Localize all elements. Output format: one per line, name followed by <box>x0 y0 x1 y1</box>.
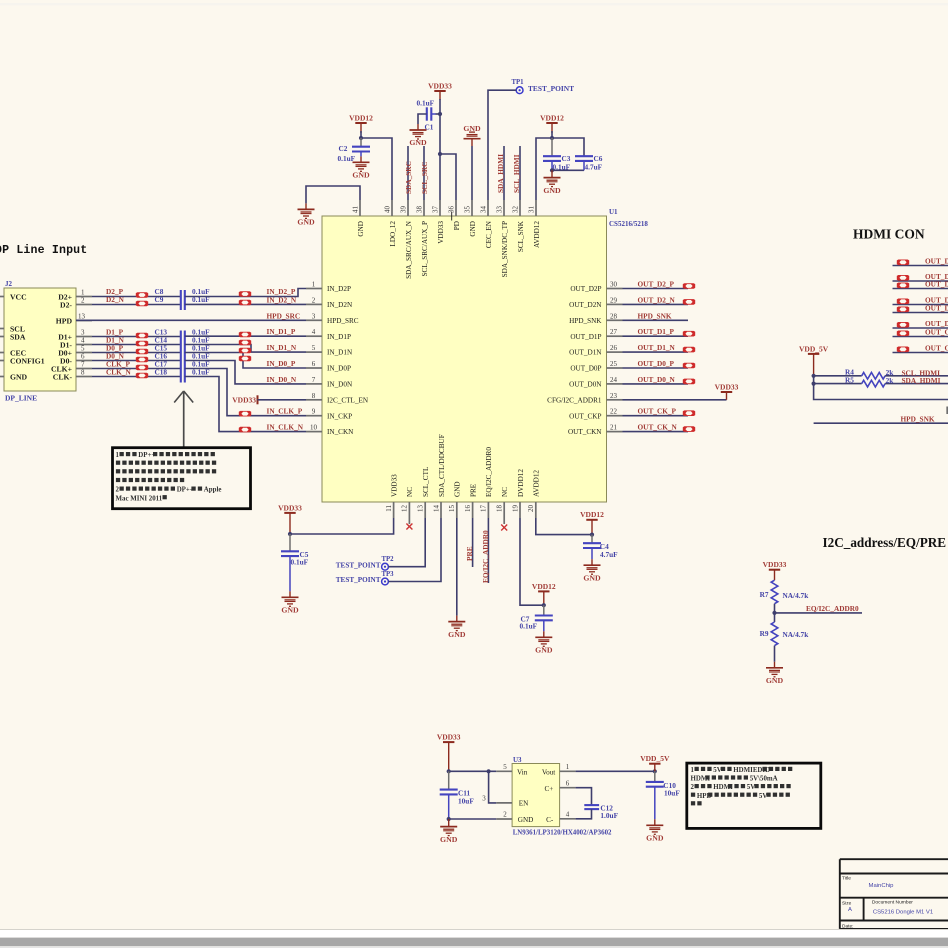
svg-text:4.7uF: 4.7uF <box>600 550 618 559</box>
diff-pair directive <box>683 347 695 353</box>
diff-pair directive <box>897 275 909 281</box>
svg-text:HPD_SNK: HPD_SNK <box>569 317 602 325</box>
no-connect X pin 18 <box>501 525 507 531</box>
diff-pair directive <box>683 283 695 289</box>
wire PRE U1.16 <box>472 518 474 567</box>
svg-text:20: 20 <box>527 505 535 513</box>
svg-text:VDD12: VDD12 <box>349 113 373 122</box>
U1 pin 30 OUT_D2P stub <box>607 288 623 290</box>
power VDD33 at R7 <box>769 570 780 581</box>
svg-text:DP Line Input: DP Line Input <box>0 244 87 257</box>
U1 pin 18 NC stub <box>503 502 505 524</box>
svg-text:CLK-: CLK- <box>53 373 73 382</box>
svg-text:GND: GND <box>409 138 427 147</box>
svg-text:GND: GND <box>469 221 477 237</box>
wire VDD33 branch to U1.36 PD <box>440 154 456 200</box>
J2 pin 7 CLK+ <box>76 368 92 370</box>
svg-text:EQ/I2C_ADDR0: EQ/I2C_ADDR0 <box>481 530 490 583</box>
wire U1.41 GND to ground <box>306 186 360 203</box>
svg-text:C18: C18 <box>155 368 168 377</box>
capacitor C12 1.0uF <box>576 788 592 805</box>
U1 pin 13 SCL_CTL stub <box>424 502 426 518</box>
U1 pin 25 OUT_D0P stub <box>607 367 623 369</box>
svg-text:GND: GND <box>766 676 784 685</box>
svg-text:IN_D0P: IN_D0P <box>327 365 351 373</box>
U1 pin 33 SDA_SNK/DC_TP stub <box>503 200 505 216</box>
U1 pin 15 GND stub <box>456 502 458 518</box>
svg-text:SCL_SRC: SCL_SRC <box>420 162 429 194</box>
svg-text:VCC: VCC <box>10 293 27 302</box>
diff-pair directive <box>239 427 251 433</box>
svg-text:VDD33: VDD33 <box>232 396 256 405</box>
svg-text:IN_D2_N: IN_D2_N <box>267 295 297 304</box>
ground symbol (U1.35) <box>464 132 481 139</box>
U1 pin 11 VDD33 stub <box>393 502 395 518</box>
svg-text:LDO_12: LDO_12 <box>389 221 397 247</box>
wire U1.20 AVDD12 <box>536 518 592 535</box>
wire U1.15 GND <box>456 518 458 616</box>
svg-text:33: 33 <box>495 206 503 214</box>
svg-text:SDA_SNK/DC_TP: SDA_SNK/DC_TP <box>501 221 509 277</box>
power VDD_5V at U3 output <box>649 764 660 772</box>
svg-text:IN_D1_N: IN_D1_N <box>267 343 297 352</box>
svg-text:GND: GND <box>10 373 28 382</box>
svg-text:5V: 5V <box>759 793 767 800</box>
svg-text:7: 7 <box>312 376 316 384</box>
diff-pair directive <box>239 332 251 338</box>
svg-text:CS5216/5218: CS5216/5218 <box>609 220 648 228</box>
ground symbol (C4) <box>584 565 601 574</box>
svg-text:SCL_SRC/AUX_P: SCL_SRC/AUX_P <box>421 221 429 277</box>
svg-text:OUT_D1_P: OUT_D1_P <box>638 327 675 336</box>
U1 pin 19 DVDD12 stub <box>519 502 521 518</box>
svg-text:1: 1 <box>81 289 85 297</box>
note box 2 (5V for HDMI EDID note) <box>687 763 821 828</box>
svg-text:GND: GND <box>518 816 534 824</box>
diff-pair directive <box>683 426 695 432</box>
svg-text:GND: GND <box>535 646 553 655</box>
J2 left pin GND <box>0 376 4 378</box>
svg-text:MainChip: MainChip <box>869 883 895 889</box>
test point TP2 <box>382 563 389 570</box>
svg-text:OUT_CK_N: OUT_CK_N <box>925 344 948 353</box>
svg-text:38: 38 <box>415 206 423 214</box>
svg-text:OUT_D0P: OUT_D0P <box>570 365 601 373</box>
svg-text:4: 4 <box>81 337 85 345</box>
svg-text:GND: GND <box>357 221 365 237</box>
wire GND rail U3.2 <box>449 818 497 820</box>
svg-text:OUT_D2_P: OUT_D2_P <box>638 280 675 289</box>
svg-text:TEST_POINT: TEST_POINT <box>336 576 381 584</box>
svg-text:OUT_D0_P: OUT_D0_P <box>638 359 675 368</box>
svg-text:VDD12: VDD12 <box>540 113 564 122</box>
U1 pin 32 SCL_SNK stub <box>519 200 521 216</box>
svg-text:IN_D0_P: IN_D0_P <box>267 359 296 368</box>
svg-text:A: A <box>848 907 852 913</box>
svg-text:5: 5 <box>503 763 507 771</box>
resistor R4 2k SCL_HDMI pullup <box>814 375 862 377</box>
HDMI connector edge (clipped) <box>946 407 948 415</box>
capacitor C6 4.7uF <box>575 155 593 157</box>
ground symbol (U1.15) <box>448 622 465 631</box>
wire TP2 to U1.13 SCL_CTL <box>389 518 426 567</box>
svg-text:Date:: Date: <box>842 923 853 929</box>
IC U3 LN9361 body <box>512 764 560 827</box>
svg-text:IN_CKN: IN_CKN <box>327 428 354 436</box>
power VDD12 at C2/LDO_12 <box>355 123 366 133</box>
svg-text:2: 2 <box>691 784 695 791</box>
svg-text:2: 2 <box>81 297 85 305</box>
svg-text:PRE: PRE <box>465 546 474 561</box>
U1 pin 27 OUT_D1P stub <box>607 335 623 337</box>
svg-text:15: 15 <box>448 505 456 513</box>
svg-text:IN_CLK_P: IN_CLK_P <box>267 407 303 416</box>
U1 pin 14 SDA_CTL/DDCBUF stub <box>440 502 442 518</box>
power VDD33 at U3/C11 <box>443 742 454 771</box>
U1 pin 23 CFG/I2C_ADDR1 stub <box>607 399 623 401</box>
svg-text:6: 6 <box>81 353 85 361</box>
svg-text:NA/4.7k: NA/4.7k <box>783 630 810 639</box>
svg-text:HPD_SNK: HPD_SNK <box>638 311 672 320</box>
wire D0_N J2.6 to C16 <box>92 360 181 362</box>
svg-text:VDD33: VDD33 <box>715 382 739 391</box>
svg-text:7: 7 <box>81 361 85 369</box>
wire OUT_D2_P to HDMI connector <box>893 265 948 267</box>
wire EN U3.3 <box>489 771 497 803</box>
svg-text:OUT_CK_P: OUT_CK_P <box>925 328 948 337</box>
diff-pair directive <box>683 363 695 369</box>
wire IN_D0_P C15 to U1.6 <box>185 353 306 369</box>
no-connect X pin 12 <box>406 524 412 530</box>
svg-text:I2C_address/EQ/PRE: I2C_address/EQ/PRE <box>823 535 947 550</box>
svg-text:TP1: TP1 <box>512 79 525 86</box>
svg-text:VDD33: VDD33 <box>278 503 302 512</box>
capacitor C1 0.1uF <box>426 107 428 120</box>
wire VDD12 to U1.31 AVDD12 <box>536 138 552 200</box>
U1 pin 4 IN_D1P stub <box>306 335 322 337</box>
U1 pin 34 CEC_EN stub <box>487 200 489 216</box>
wire D2_N J2.2 to C9 <box>92 304 181 306</box>
svg-text:12: 12 <box>401 505 409 513</box>
svg-text:27: 27 <box>610 328 618 336</box>
svg-text:SDA_SRC/AUX_N: SDA_SRC/AUX_N <box>405 220 413 279</box>
svg-text:35: 35 <box>463 206 471 214</box>
svg-text:R7: R7 <box>760 590 769 599</box>
svg-text:PRE: PRE <box>469 483 477 497</box>
U1 pin 10 IN_CKN stub <box>306 431 322 433</box>
U1 pin 38 SCL_SRC/AUX_P stub <box>423 200 425 216</box>
U1 pin 37 VDD33 stub <box>439 200 441 216</box>
svg-text:OUT_D1P: OUT_D1P <box>570 333 601 341</box>
svg-text:TEST_POINT: TEST_POINT <box>336 561 381 569</box>
svg-text:32: 32 <box>511 206 519 214</box>
connector J2 DP_LINE <box>4 288 76 391</box>
svg-text:C-: C- <box>546 816 554 824</box>
svg-text:EN: EN <box>519 800 529 808</box>
power VDD12 at C4/U1.20 <box>586 520 597 535</box>
diff-pair directive <box>897 283 909 289</box>
svg-text:DP++: DP++ <box>177 487 194 494</box>
diff-pair directive <box>897 331 909 337</box>
svg-text:D2_N: D2_N <box>106 295 125 304</box>
svg-text:EQ/I2C_ADDR0: EQ/I2C_ADDR0 <box>485 447 493 497</box>
svg-text:9: 9 <box>312 408 316 416</box>
svg-text:VDD33: VDD33 <box>437 733 461 742</box>
svg-text:8: 8 <box>312 392 316 400</box>
svg-text:TEST_POINT: TEST_POINT <box>528 84 574 93</box>
svg-text:31: 31 <box>527 206 535 214</box>
svg-text:OUT_D1N: OUT_D1N <box>569 349 602 357</box>
diff-pair directive <box>239 356 251 362</box>
diff-pair directive <box>897 307 909 313</box>
svg-text:39: 39 <box>399 206 407 214</box>
svg-text:OUT_CK_P: OUT_CK_P <box>638 407 677 416</box>
svg-text:NA/4.7k: NA/4.7k <box>783 591 810 600</box>
diff-pair directive <box>683 299 695 305</box>
ground symbol (C10) <box>646 825 663 834</box>
U1 pin 26 OUT_D1N stub <box>607 351 623 353</box>
wire IN_D0_N C16 to U1.7 <box>185 361 306 384</box>
svg-text:6: 6 <box>566 779 570 787</box>
svg-text:19: 19 <box>511 505 519 513</box>
svg-text:3: 3 <box>312 312 316 320</box>
J2 pin 4 D1- <box>76 344 92 346</box>
svg-text:11: 11 <box>385 505 393 512</box>
svg-text:OUT_CK_N: OUT_CK_N <box>638 423 678 432</box>
svg-text:CLK_N: CLK_N <box>106 368 131 377</box>
svg-text:TP3: TP3 <box>382 571 395 578</box>
svg-text:4: 4 <box>312 328 316 336</box>
svg-text:GND: GND <box>448 630 466 639</box>
svg-text:29: 29 <box>610 296 618 304</box>
power VDD33 at C5/U1.11 <box>284 513 295 534</box>
power VDD33 at U1.23 <box>721 392 732 400</box>
svg-text:OUT_D0N: OUT_D0N <box>569 381 602 389</box>
U1 pin 36 PD stub <box>455 200 457 216</box>
svg-text:IN_D2N: IN_D2N <box>327 301 353 309</box>
wire SDA_HDMI U1.33 <box>503 146 505 200</box>
svg-text:GND: GND <box>440 835 458 844</box>
U1 pin 16 PRE stub <box>472 502 474 518</box>
svg-text:IN_D0_N: IN_D0_N <box>267 375 297 384</box>
svg-text:HPD_SNK: HPD_SNK <box>901 414 935 423</box>
svg-text:U1: U1 <box>609 208 618 216</box>
wire SCL_SRC U1.38 <box>423 146 425 200</box>
svg-text:OUT_D0_N: OUT_D0_N <box>638 375 676 384</box>
capacitor C5 0.1uF <box>289 534 291 551</box>
svg-text:D2-: D2- <box>60 301 72 310</box>
svg-text:HPD: HPD <box>56 317 73 326</box>
U1 pin 3 HPD_SRC stub <box>306 319 322 321</box>
J2 pin 6 D0- <box>76 360 92 362</box>
svg-text:30: 30 <box>610 281 618 289</box>
wire CLK_P J2.7 to C17 <box>92 368 181 370</box>
svg-text:IN_CKP: IN_CKP <box>327 412 352 420</box>
U1 pin 7 IN_D0N stub <box>306 383 322 385</box>
wire OUT_CK_N to HDMI connector <box>893 352 948 354</box>
wire OUT_D2_N from U1 <box>623 303 689 305</box>
svg-text:SDA_HDMI: SDA_HDMI <box>496 154 505 193</box>
wire D1_P J2.3 to C13 <box>92 336 181 338</box>
wire VDD12 to C6 <box>552 138 584 156</box>
J2 left pin SCL <box>0 328 4 330</box>
wire IN_CLK_P C17 to U1.9 <box>185 369 306 416</box>
svg-text:6: 6 <box>312 360 316 368</box>
svg-text:DP++: DP++ <box>138 452 155 459</box>
wire HPD J2.13 to U1.3 (HPD_SRC) <box>76 319 306 321</box>
J2 pin 3 D1+ <box>76 336 92 338</box>
J2 left pin CONFIG1 <box>0 360 4 362</box>
svg-text:VDD33: VDD33 <box>390 474 398 497</box>
svg-text:25: 25 <box>610 360 618 368</box>
svg-text:I2C_CTL_EN: I2C_CTL_EN <box>327 396 369 404</box>
svg-text:AVDD12: AVDD12 <box>533 221 541 248</box>
svg-text:34: 34 <box>479 206 487 214</box>
svg-text:C9: C9 <box>155 295 164 304</box>
wire D0_P J2.5 to C15 <box>92 352 181 354</box>
svg-text:SCL_SNK: SCL_SNK <box>517 220 525 252</box>
power VDD_5V (HDMI) <box>808 354 819 376</box>
ground symbol (R9) <box>766 668 783 677</box>
wire SCL_HDMI U1.32 <box>519 146 521 200</box>
wire D2_P J2.1 to C8 <box>92 296 181 298</box>
wire OUT_D1_N from U1 <box>623 351 689 353</box>
resistor R7 NA/4.7k <box>771 580 778 604</box>
J2 left pin SDA <box>0 336 4 338</box>
svg-text:Title: Title <box>842 876 851 882</box>
U3 pin 2 GND stub <box>496 818 512 820</box>
U1 pin 40 LDO_12 stub <box>391 200 393 216</box>
svg-text:LN9361/LP3120/HX4002/AP3602: LN9361/LP3120/HX4002/AP3602 <box>513 830 612 837</box>
svg-text:OUT_D1_N: OUT_D1_N <box>638 343 676 352</box>
svg-text:OUT_D0_P: OUT_D0_P <box>925 304 948 313</box>
svg-text:GND: GND <box>646 834 664 843</box>
diff-pair directive <box>239 291 251 297</box>
svg-text:EQ/I2C_ADDR0: EQ/I2C_ADDR0 <box>806 604 859 613</box>
wire OUT_D1_N to HDMI connector <box>893 304 948 306</box>
svg-text:HDMI CON: HDMI CON <box>853 227 925 242</box>
svg-text:22: 22 <box>610 408 618 416</box>
capacitor C10 10uF <box>654 771 656 782</box>
test point TP3 <box>382 578 389 585</box>
svg-text:GND: GND <box>281 606 299 615</box>
svg-text:2: 2 <box>116 487 120 494</box>
J2 pin 1 D2+ <box>76 296 92 298</box>
J2 left pin VCC <box>0 296 4 298</box>
svg-text:VDD33: VDD33 <box>428 81 452 90</box>
svg-text:SDA_CTL/DDCBUF: SDA_CTL/DDCBUF <box>438 434 446 497</box>
wire TP1 to U1.34 CEC_EN <box>488 90 516 200</box>
wire VDD12 node to U1.40 <box>360 131 362 138</box>
svg-text:SDA_SRC: SDA_SRC <box>404 161 413 194</box>
U1 pin 12 NC stub <box>408 502 410 524</box>
svg-text:GND: GND <box>583 573 601 582</box>
ground symbol (C5) <box>282 597 299 606</box>
wire HPD_SNK from U1 <box>623 319 689 321</box>
note arrow <box>183 392 185 447</box>
wire SDA_SRC U1.39 <box>407 146 409 200</box>
svg-text:10uF: 10uF <box>664 788 680 797</box>
ground symbol (C7) <box>535 637 552 646</box>
wire U1.35 to ground <box>471 139 473 146</box>
svg-text:R9: R9 <box>760 629 769 638</box>
wire IN_CLK_N C18 to U1.10 <box>185 377 306 432</box>
wire OUT_D0_N to HDMI connector <box>893 327 948 329</box>
U1 pin 22 OUT_CKP stub <box>607 415 623 417</box>
svg-text:10uF: 10uF <box>458 797 474 806</box>
svg-text:23: 23 <box>610 392 618 400</box>
wire CLK_N J2.8 to C18 <box>92 376 181 378</box>
svg-text:CEC_EN: CEC_EN <box>485 220 493 248</box>
power VDD12 at C7/U1.19 <box>538 591 549 605</box>
svg-text:C+: C+ <box>544 785 553 793</box>
svg-text:GND: GND <box>297 218 315 227</box>
J2 pin 8 CLK- <box>76 376 92 378</box>
svg-text:2: 2 <box>503 811 507 819</box>
svg-text:5V: 5V <box>713 767 721 774</box>
J2 pin 5 D0+ <box>76 352 92 354</box>
svg-text:IN_D1N: IN_D1N <box>327 349 353 357</box>
wire C1 to ground <box>418 114 427 124</box>
svg-text:17: 17 <box>480 505 488 513</box>
ground symbol (U3/C11) <box>440 827 457 836</box>
svg-text:0.1uF: 0.1uF <box>417 99 435 108</box>
resistor R9 NA/4.7k <box>771 622 778 646</box>
wire U3.1 Vout to VDD_5V <box>576 770 655 772</box>
U1 pin 1 IN_D2P stub <box>306 288 322 290</box>
wire OUT_D2_N to HDMI connector <box>893 280 948 282</box>
U3 pin 4 C- stub <box>560 818 576 820</box>
svg-text:16: 16 <box>464 505 472 513</box>
wire OUT_CK_P to HDMI connector <box>893 336 948 338</box>
svg-text:5V: 5V <box>747 784 755 791</box>
svg-text:OUT_CKP: OUT_CKP <box>569 412 601 420</box>
svg-text:VDD33: VDD33 <box>437 221 445 244</box>
diff-pair directive <box>136 349 148 355</box>
U1 pin 8 I2C_CTL_EN stub <box>306 399 322 401</box>
wire VDD_5V rail <box>814 376 948 400</box>
svg-text:Vin: Vin <box>517 769 528 777</box>
U3 pin 6 C+ stub <box>560 787 576 789</box>
svg-text:1: 1 <box>691 767 695 774</box>
svg-text:CS5216 Dongle M1 V1: CS5216 Dongle M1 V1 <box>873 910 933 916</box>
svg-text:GND: GND <box>543 186 561 195</box>
U1 pin 2 IN_D2N stub <box>306 303 322 305</box>
U1 pin 17 EQ/I2C_ADDR0 stub <box>487 502 489 518</box>
U3 pin 3 EN stub <box>496 802 512 804</box>
svg-text:Size: Size <box>842 900 852 906</box>
J2 pin 13 HPD <box>76 320 92 322</box>
svg-text:VDD_5V: VDD_5V <box>640 754 670 763</box>
bottom window scrollbar <box>0 929 948 930</box>
svg-text:0.1uF: 0.1uF <box>520 622 538 631</box>
diff-pair directive <box>897 260 909 266</box>
svg-text:PD: PD <box>453 221 461 230</box>
svg-text:37: 37 <box>431 206 439 214</box>
wire R9 to ground <box>774 646 776 662</box>
svg-text:OUT_D2_P: OUT_D2_P <box>925 257 948 266</box>
wire IN_D2_P C8 to U1.1 <box>185 289 306 297</box>
power VDD12 at C3/C6/U1.31 <box>546 123 557 133</box>
svg-text:2k: 2k <box>886 376 895 385</box>
IC U1 CS5216/5218 body <box>322 216 607 502</box>
wire IN_D2_N C9 to U1.2 <box>185 303 306 305</box>
svg-text:IN_D1_P: IN_D1_P <box>267 327 296 336</box>
test point TP1 <box>516 87 523 94</box>
svg-text:SDA_HDMI: SDA_HDMI <box>902 376 941 385</box>
svg-text:2: 2 <box>312 296 316 304</box>
svg-text:CONFIG1: CONFIG1 <box>10 357 45 366</box>
